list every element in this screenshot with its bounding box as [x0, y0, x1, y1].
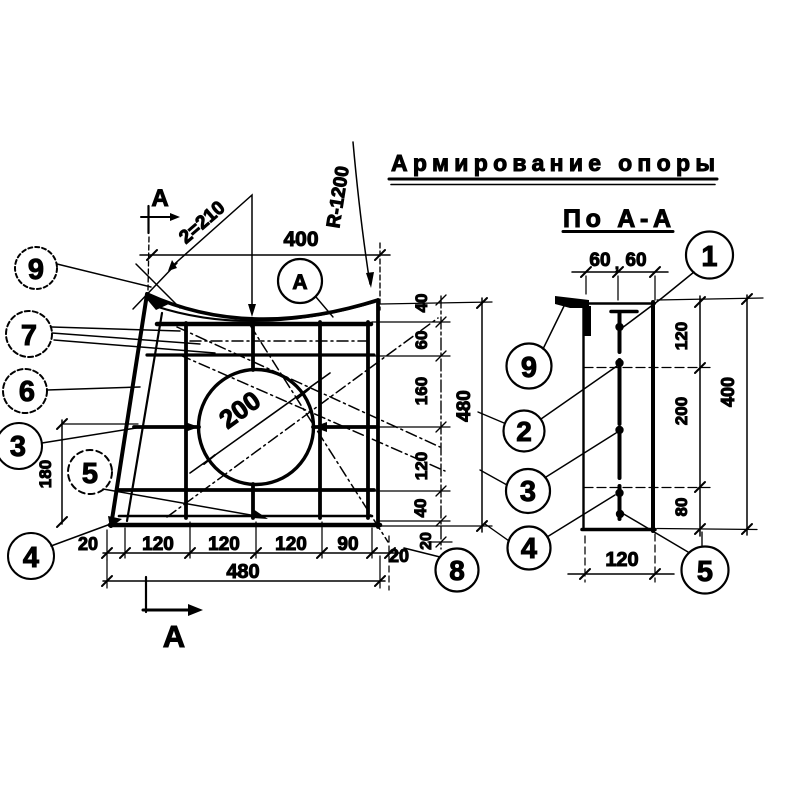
callout 1	[622, 232, 733, 329]
callout 3 right	[480, 433, 616, 513]
svg-text:9: 9	[521, 352, 537, 384]
bottom rebar bar	[119, 515, 372, 518]
svg-text:60: 60	[412, 331, 431, 350]
outline right edge	[376, 300, 380, 527]
bar 9 hook (top-left)	[555, 296, 589, 308]
svg-text:20: 20	[418, 532, 435, 550]
svg-text:Армирование опоры: Армирование опоры	[391, 150, 715, 176]
outline bottom edge	[110, 523, 380, 528]
callout 9 right	[507, 302, 567, 389]
right chain dimension	[672, 296, 705, 536]
section mark A bottom	[143, 577, 203, 654]
svg-text:400: 400	[283, 228, 318, 251]
right side chain dimension of left figure	[436, 295, 446, 549]
horizontal rebar bar top	[157, 322, 371, 327]
dimension 400 top	[140, 228, 390, 260]
title: Армирование опоры	[389, 150, 717, 185]
bottom dimension 480	[102, 536, 389, 590]
svg-text:120: 120	[208, 534, 240, 555]
bottom extension lines	[107, 522, 372, 560]
outline left slant edge	[111, 294, 147, 526]
svg-text:90: 90	[337, 534, 358, 555]
svg-text:40: 40	[411, 499, 430, 518]
svg-text:,: ,	[615, 256, 619, 273]
radius R-1200	[323, 142, 380, 310]
far right 400 dimension	[657, 294, 763, 535]
svg-text:А: А	[151, 185, 168, 212]
outline top curve	[147, 294, 378, 319]
tie lines	[584, 367, 713, 369]
svg-text:4: 4	[521, 533, 537, 565]
construction dash-dot diagonal 1	[167, 318, 438, 517]
callout 9 left	[15, 247, 151, 289]
svg-text:120: 120	[142, 534, 174, 555]
svg-text:480: 480	[454, 390, 475, 422]
callout 2	[478, 366, 617, 452]
vertical rebar bar 2 (interrupted by hole)	[251, 322, 255, 518]
callout A	[278, 259, 333, 317]
svg-text:120: 120	[412, 452, 431, 480]
callout 8	[404, 548, 479, 592]
bar cross-section dots	[615, 323, 624, 518]
inner slant rebar	[127, 313, 162, 521]
callout 5 left	[68, 450, 268, 519]
svg-text:200: 200	[672, 397, 691, 425]
construction dash line horizontal	[190, 340, 368, 342]
overall 480 vertical dimension	[380, 298, 492, 532]
callout 3 left	[0, 423, 136, 469]
construction dash-dot diagonal steep	[250, 325, 388, 542]
bottom 120 dimension	[568, 534, 674, 582]
svg-text:3: 3	[10, 431, 26, 463]
svg-text:2: 2	[516, 416, 532, 447]
svg-text:480: 480	[226, 561, 259, 583]
svg-text:7: 7	[21, 320, 37, 352]
svg-text:А: А	[292, 271, 307, 294]
apex triangle z=210	[168, 195, 256, 317]
subtitle: По А-А	[563, 205, 673, 233]
svg-text:120: 120	[672, 322, 691, 350]
horizontal rebar bar 2	[147, 353, 374, 356]
svg-text:А: А	[163, 619, 185, 654]
svg-text:40: 40	[412, 294, 431, 313]
svg-text:По А-А: По А-А	[563, 205, 671, 233]
svg-text:20: 20	[78, 534, 98, 554]
horizontal rebar bar middle (interrupted by hole)	[134, 425, 199, 429]
construction dash-dot diagonal 2	[177, 327, 440, 447]
callout 4 left	[8, 516, 122, 579]
svg-text:120: 120	[275, 534, 307, 555]
horizontal rebar bar 4	[117, 488, 374, 492]
callout 6	[3, 369, 140, 413]
svg-text:60: 60	[625, 250, 646, 271]
svg-text:8: 8	[449, 555, 465, 586]
construction dash-dot diagonal 3	[180, 355, 445, 471]
hole circle d200	[199, 370, 314, 485]
callout 4 right	[485, 495, 615, 570]
vertical rebar bar 1	[184, 323, 188, 518]
svg-text:3: 3	[520, 476, 536, 508]
vertical rebar bar 3	[318, 322, 322, 518]
svg-text:4: 4	[23, 542, 39, 574]
svg-text:9: 9	[28, 254, 44, 286]
tip wedge fill	[145, 292, 171, 310]
bottom dimension row 1	[78, 534, 409, 566]
section mark A top	[141, 185, 180, 290]
svg-text:160: 160	[412, 377, 431, 405]
callout 7	[6, 311, 215, 357]
svg-text:1: 1	[701, 241, 717, 273]
inner top curve (rebar along curve)	[155, 302, 375, 321]
svg-text:120: 120	[605, 549, 638, 571]
hole diameter line	[190, 373, 330, 473]
svg-text:5: 5	[82, 458, 98, 490]
left 180 dimension	[36, 419, 138, 527]
svg-text:6: 6	[19, 376, 35, 408]
vertical rebar bar 4	[366, 322, 370, 518]
section rectangle	[582, 303, 584, 529]
callout 5 right	[622, 513, 729, 594]
svg-text:400: 400	[718, 377, 738, 407]
construction X at tip	[133, 263, 180, 309]
svg-text:5: 5	[697, 556, 713, 588]
svg-text:180: 180	[36, 460, 55, 488]
extension lines	[380, 302, 492, 304]
svg-text:80: 80	[672, 498, 691, 517]
top dimension 60,60	[572, 250, 668, 300]
svg-text:60: 60	[589, 250, 610, 271]
inner rebar bar	[611, 310, 637, 314]
